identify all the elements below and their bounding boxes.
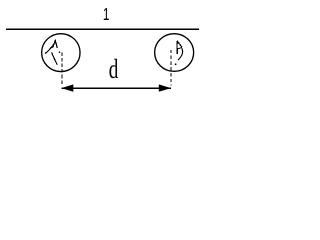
roller left circle (42, 34, 80, 72)
dimension arrowhead left (61, 84, 73, 91)
svg-text:1: 1 (103, 5, 110, 25)
centerline left dashed (61, 52, 63, 85)
centerline right dashed (170, 50, 172, 86)
svg-text:d: d (109, 55, 119, 85)
rotation arrow left (45, 41, 60, 65)
roller right circle (155, 34, 194, 72)
dimension arrow shaft d (61, 87, 171, 89)
rotation arrow right (175, 41, 183, 66)
dimension arrowhead right (159, 84, 171, 91)
wire beam line 1 (6, 28, 199, 30)
